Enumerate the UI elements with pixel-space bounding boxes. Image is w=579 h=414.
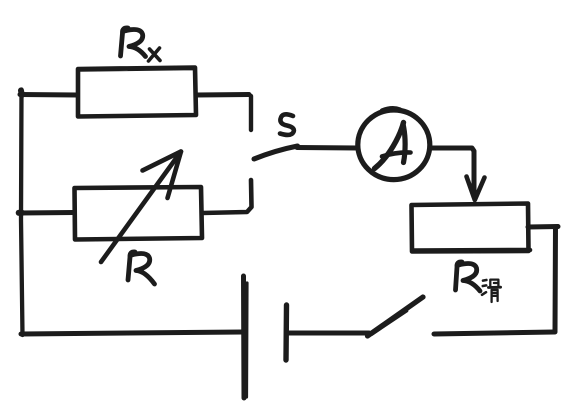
wire Rx right to switch top corner (196, 92, 249, 98)
ammeter letter A crossbar (382, 152, 411, 156)
label R滑 : character 滑 (middle wide bar) (488, 286, 500, 289)
wire bottom switch right contact (434, 332, 554, 334)
ammeter letter A long diagonal (375, 123, 404, 169)
ammeter letter A right leg (403, 124, 405, 163)
wire blade to ammeter (297, 145, 358, 151)
variable resistor arrowhead (143, 152, 182, 199)
label S (280, 114, 294, 135)
label Rx : letter R (121, 28, 129, 56)
wire ammeter right then down (430, 148, 474, 196)
wire bottom-left horizontal to battery (21, 332, 243, 334)
variable resistor R box (75, 187, 203, 240)
wire battery to bottom switch (288, 331, 369, 336)
bottom switch blade second pen stroke (372, 311, 407, 335)
wire left vertical (21, 90, 23, 336)
battery short plate (negative) (283, 305, 289, 360)
wire switch S top contact vertical (249, 96, 253, 130)
wire top-left horizontal to Rx (20, 92, 77, 98)
junction blob left-middle (19, 210, 22, 216)
label R (variable resistor) (128, 252, 135, 280)
label R滑 : character 滑 (right part 骨 top box) (490, 280, 498, 286)
wire left vertical to R box (19, 210, 75, 216)
wire R box right to switch bottom corner (202, 180, 252, 213)
ammeter circle (358, 110, 430, 180)
wire right vertical down (553, 227, 559, 332)
switch S blade (254, 146, 298, 159)
label R滑 : character 滑 (bottom 月) (492, 290, 498, 302)
label Rx : subscript x (149, 48, 161, 61)
resistor Rx (78, 68, 196, 117)
bottom switch blade (368, 297, 424, 336)
battery long plate (positive) (241, 276, 247, 398)
label R滑 : letter R (456, 262, 463, 290)
arrowhead pointing down onto rheostat (467, 177, 485, 201)
wire rheostat right to corner (528, 224, 558, 230)
variable resistor arrow shaft (101, 152, 181, 263)
rheostat R滑 box (412, 204, 531, 252)
ammeter pen-overlap nub at top (382, 108, 400, 110)
label R滑 : character 滑 (water radical dots) (482, 280, 486, 295)
